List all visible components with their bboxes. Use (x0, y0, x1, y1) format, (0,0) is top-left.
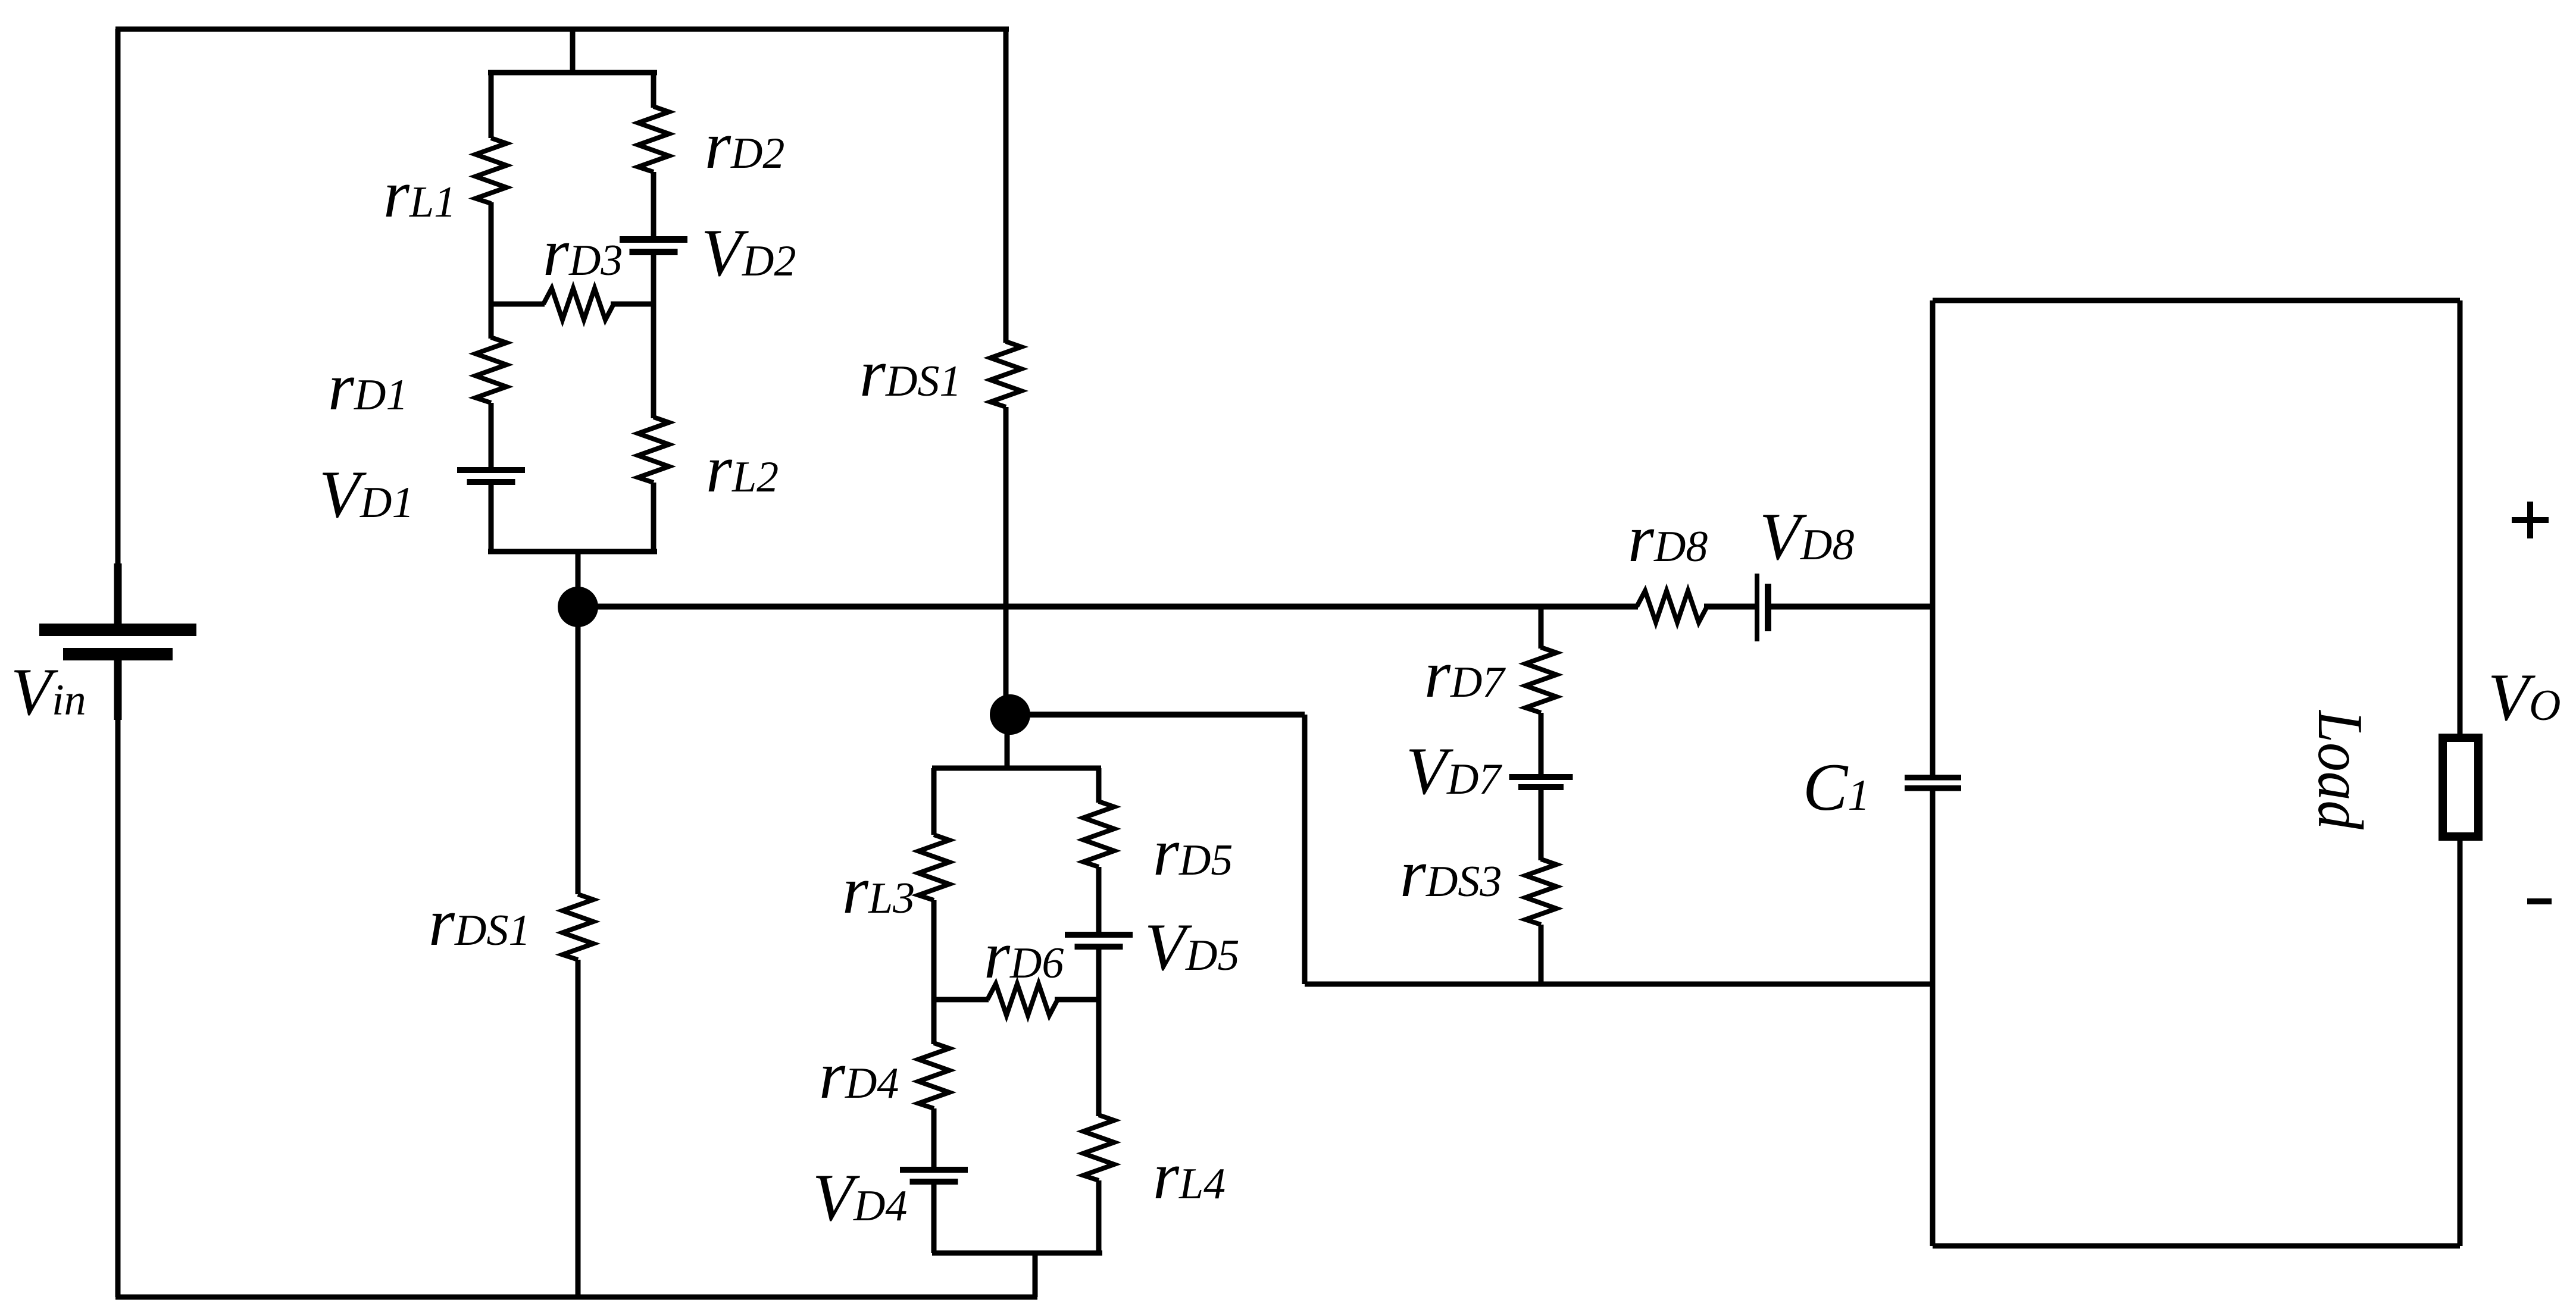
svg-text:Load: Load (2305, 709, 2375, 830)
